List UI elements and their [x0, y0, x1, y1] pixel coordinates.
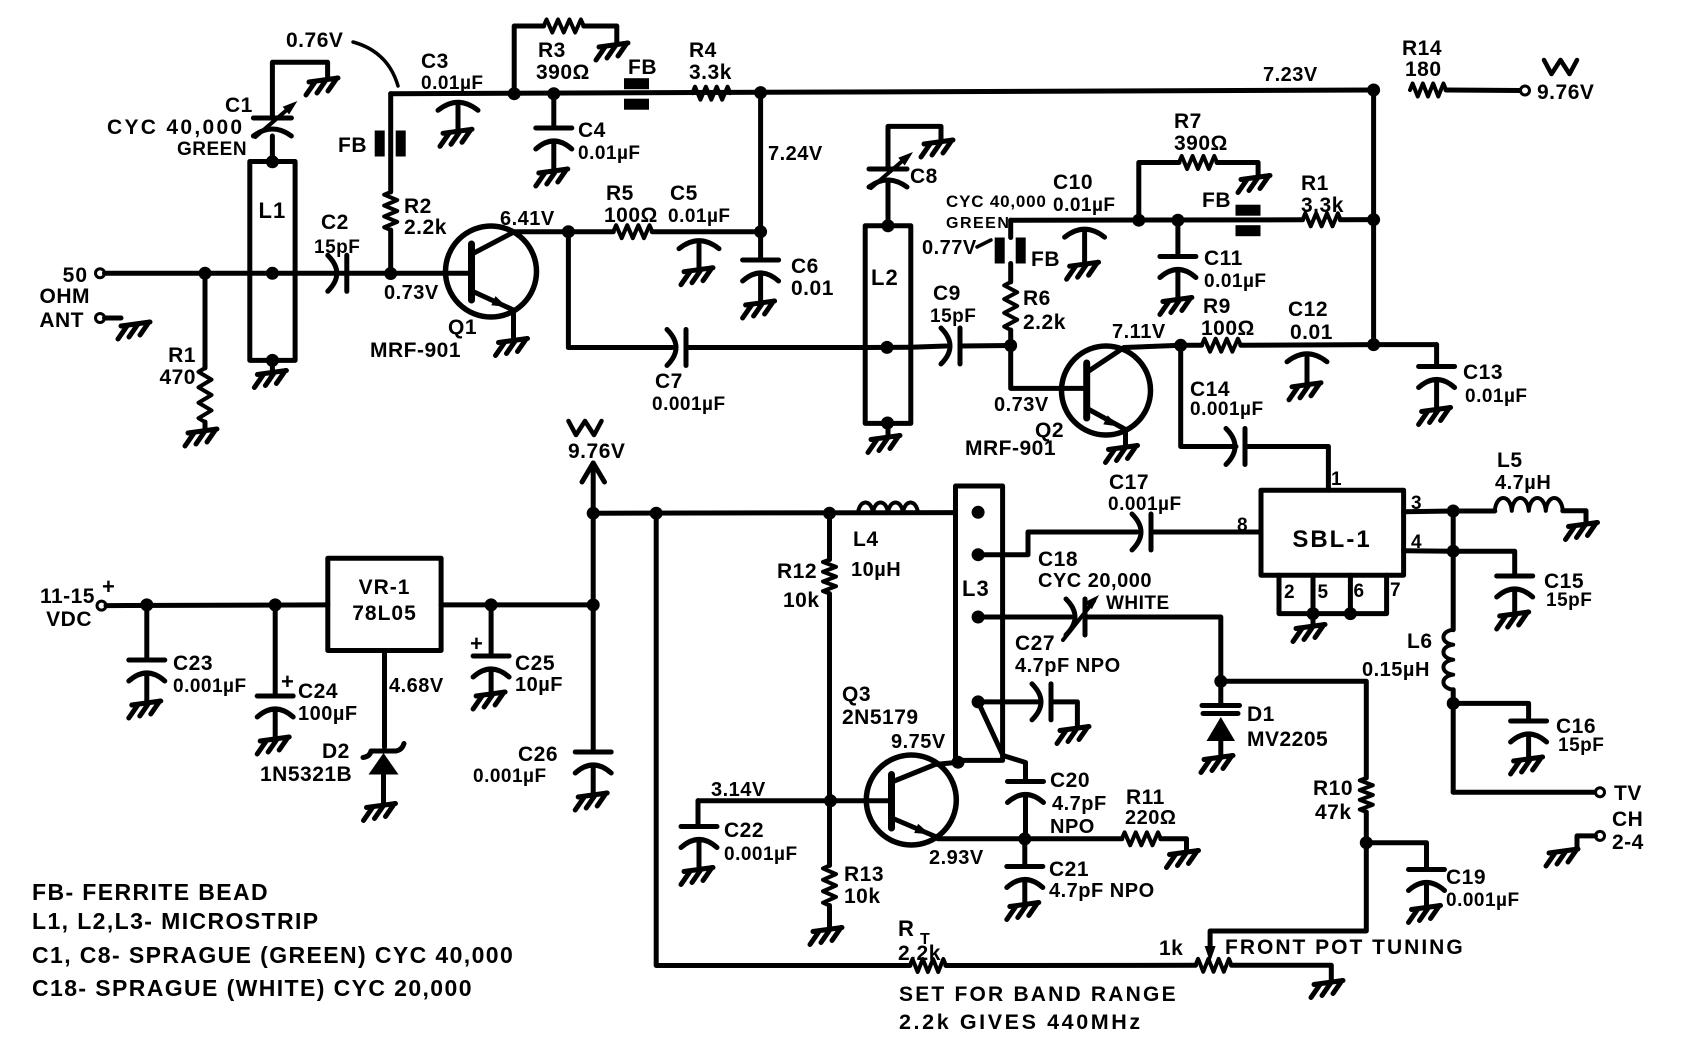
inductor L5: [1453, 449, 1586, 523]
svg-text:3.3k: 3.3k: [1301, 194, 1344, 217]
junction supply top: [587, 507, 600, 520]
svg-text:C3: C3: [421, 50, 449, 73]
resistor R5: [604, 182, 658, 238]
ground R11: [1167, 851, 1199, 868]
svg-text:8: 8: [1237, 515, 1248, 536]
junction top rail R14: [1367, 84, 1380, 97]
capacitor C16: [1453, 703, 1604, 774]
inductor L6: [1362, 630, 1453, 690]
junction pin4 node: [1447, 545, 1460, 558]
svg-text:C21: C21: [1049, 858, 1089, 881]
ferrite bead FB near R6: [995, 238, 1060, 272]
svg-text:0.15µH: 0.15µH: [1362, 659, 1430, 681]
svg-text:10k: 10k: [844, 885, 881, 908]
capacitor C17: [1108, 471, 1182, 550]
resistor RT: [898, 916, 946, 972]
ground R13: [810, 928, 842, 945]
wire R2 upper lead: [388, 94, 393, 192]
svg-text:0.73V: 0.73V: [384, 282, 439, 304]
svg-text:1k: 1k: [1159, 937, 1183, 960]
wire C8 lower lead: [886, 183, 891, 226]
transistor Q3: [842, 683, 958, 845]
svg-text:0.01µF: 0.01µF: [578, 143, 641, 164]
svg-text:R11: R11: [1126, 786, 1165, 809]
svg-text:R5: R5: [606, 182, 634, 205]
svg-text:0.01: 0.01: [791, 277, 834, 300]
svg-text:11-15: 11-15: [40, 585, 95, 608]
wire R10 lower lead: [1364, 812, 1369, 843]
svg-text:15pF: 15pF: [314, 237, 360, 258]
wire C1 top lead to ground: [272, 62, 327, 118]
wire right rail vertical: [1371, 90, 1376, 345]
svg-text:CYC 20,000: CYC 20,000: [1038, 570, 1152, 592]
junction L3 tap 2: [972, 548, 985, 561]
svg-text:C1, C8- SPRAGUE (GREEN) CYC 40: C1, C8- SPRAGUE (GREEN) CYC 40,000: [32, 942, 514, 968]
svg-text:0.01: 0.01: [1290, 321, 1333, 344]
svg-text:R3: R3: [538, 39, 566, 62]
mixer U1 SBL-1: [1261, 490, 1404, 575]
svg-text:C8: C8: [910, 165, 938, 188]
svg-text:10k: 10k: [783, 589, 820, 612]
wire VDC input line: [106, 602, 328, 608]
junction RT branch: [650, 507, 663, 520]
wire C8 top lead: [888, 126, 941, 169]
svg-text:390Ω: 390Ω: [536, 61, 590, 84]
svg-text:FB: FB: [1031, 248, 1060, 271]
svg-text:100Ω: 100Ω: [1201, 317, 1255, 340]
svg-text:10µH: 10µH: [851, 559, 901, 581]
svg-text:15pF: 15pF: [1558, 735, 1604, 756]
svg-text:7: 7: [1390, 580, 1401, 601]
capacitor C9: [930, 282, 976, 364]
svg-text:15pF: 15pF: [1546, 590, 1592, 611]
svg-text:Q3: Q3: [842, 683, 871, 706]
svg-text:2.2k: 2.2k: [404, 216, 447, 239]
svg-text:0.73V: 0.73V: [994, 394, 1049, 416]
diode D1 MV2205 (varactor): [1202, 681, 1328, 756]
svg-text:FB- FERRITE BEAD: FB- FERRITE BEAD: [32, 879, 269, 905]
wire L2 to C9: [911, 346, 946, 347]
capacitor C15: [1453, 551, 1592, 629]
capacitor C1 (variable): [107, 94, 297, 160]
wire C27 to ground: [1051, 702, 1077, 727]
svg-text:2-4: 2-4: [1612, 831, 1644, 854]
svg-text:1N5321B: 1N5321B: [260, 763, 352, 786]
resistor R4: [689, 39, 732, 100]
resistor R11: [1122, 786, 1177, 845]
terminal ANT ground lug: [96, 314, 151, 340]
ground Q2 emitter: [1106, 446, 1138, 463]
wire Q3 emitter line: [929, 839, 1122, 869]
diode D2 1N5321B (zener): [260, 740, 404, 804]
junction C16 node: [1447, 697, 1460, 710]
svg-text:C24: C24: [298, 680, 338, 703]
note band range: [899, 983, 1178, 1034]
pot wiper arrow: [1205, 946, 1216, 962]
junction Q1 collector node: [562, 225, 575, 238]
junction pin3 node: [1447, 505, 1460, 518]
wire R6 top lead: [1008, 264, 1013, 346]
regulator VR-1 78L05: [328, 558, 441, 650]
ferrite bead FB on bias rail: [1202, 189, 1261, 236]
label 7.23V: [1263, 64, 1318, 86]
wire R13 lower lead: [827, 801, 832, 928]
ground TV return: [1546, 849, 1578, 866]
wire C14 to SBL-1 pin 1: [1245, 447, 1328, 491]
wire second-stage bias rail: [1011, 217, 1303, 222]
svg-text:2.2k: 2.2k: [1023, 311, 1066, 334]
wire FB to base rail: [1008, 220, 1013, 237]
capacitor C10 (umbrella): [1053, 171, 1116, 279]
svg-text:100Ω: 100Ω: [604, 204, 658, 227]
wire R11 to ground: [1161, 839, 1187, 851]
svg-text:L3: L3: [962, 576, 990, 601]
svg-text:R1: R1: [1301, 172, 1329, 195]
svg-text:C18- SPRAGUE (WHITE) CYC 20,00: C18- SPRAGUE (WHITE) CYC 20,000: [32, 975, 473, 1001]
wire through L2: [865, 345, 911, 350]
svg-text:+: +: [281, 669, 294, 694]
microstrip L3: [956, 486, 1003, 760]
wire pin 4: [1404, 532, 1454, 553]
resistor R13: [823, 863, 884, 908]
svg-text:R9: R9: [1203, 295, 1231, 318]
svg-text:Q1: Q1: [448, 316, 477, 339]
capacitor C6: [743, 232, 834, 318]
power symbol W 9.76V (left) with arrow: [568, 421, 625, 513]
ground pot: [1311, 981, 1343, 998]
capacitor C2: [314, 211, 360, 291]
svg-text:C27: C27: [1015, 632, 1055, 655]
wire RT line: [656, 513, 910, 965]
wire Q3 base line: [698, 779, 892, 801]
microstrip L2: [865, 226, 911, 424]
wire pin3-pin4 vertical: [1451, 511, 1456, 630]
svg-text:D1: D1: [1247, 703, 1275, 726]
ground SBL-1 pins: [1293, 625, 1325, 642]
capacitor C5 (umbrella): [668, 182, 731, 285]
svg-text:0.001µF: 0.001µF: [652, 394, 726, 415]
wire 7.24V vertical: [758, 93, 763, 232]
svg-text:L1, L2,L3- MICROSTRIP: L1, L2,L3- MICROSTRIP: [32, 908, 320, 934]
capacitor C22: [681, 801, 798, 885]
svg-text:390Ω: 390Ω: [1174, 132, 1228, 155]
svg-text:1: 1: [1331, 469, 1342, 490]
svg-text:C25: C25: [515, 652, 555, 675]
svg-text:R13: R13: [844, 863, 884, 886]
svg-text:0.001µF: 0.001µF: [1190, 399, 1264, 420]
ferrite bead FB on rail: [624, 56, 657, 110]
wire Q2 collector drop to C14: [1181, 345, 1236, 446]
svg-text:78L05: 78L05: [352, 602, 417, 625]
svg-text:9.75V: 9.75V: [891, 731, 946, 753]
wire C7 to L2: [686, 345, 865, 350]
svg-text:C7: C7: [655, 370, 683, 393]
power symbol W 9.76V (right): [1537, 60, 1594, 104]
ground R1: [185, 429, 217, 446]
resistor R3 with loop to ground: [514, 20, 628, 94]
junction L3 tap 3: [972, 611, 985, 624]
resistor R10: [1313, 777, 1373, 824]
junction C6 node: [754, 225, 767, 238]
junction R12 R13 base node: [824, 794, 837, 807]
svg-text:C10: C10: [1053, 171, 1093, 194]
svg-text:VDC: VDC: [46, 608, 92, 631]
svg-text:0.77V: 0.77V: [922, 237, 977, 259]
terminal TV return: [1577, 831, 1605, 848]
svg-text:0.001µF: 0.001µF: [724, 844, 798, 865]
svg-text:4.68V: 4.68V: [389, 675, 444, 697]
resistor R2: [384, 192, 447, 239]
wire C7 line: [568, 345, 672, 350]
svg-text:GREEN: GREEN: [946, 215, 1010, 232]
resistor R1: [159, 344, 211, 422]
wire L1 bottom lead: [266, 354, 279, 371]
wire RT to pot: [946, 963, 1196, 968]
svg-text:R2: R2: [404, 195, 432, 218]
svg-text:SET FOR BAND RANGE: SET FOR BAND RANGE: [899, 983, 1178, 1006]
svg-text:C17: C17: [1109, 471, 1149, 494]
wire to TV terminal: [1453, 790, 1595, 795]
resistor R7 with loop to ground: [1139, 110, 1270, 220]
svg-text:FRONT POT TUNING: FRONT POT TUNING: [1225, 936, 1465, 959]
capacitor C11: [1160, 220, 1267, 314]
svg-text:+: +: [470, 631, 483, 656]
svg-text:10µF: 10µF: [515, 674, 563, 696]
capacitor C7: [652, 330, 726, 416]
inductor L4: [851, 503, 918, 582]
label 0.76V with pointer: [286, 29, 398, 86]
node 50-ohm antenna input terminal: [39, 264, 104, 332]
svg-text:2.2k GIVES 440MHz: 2.2k GIVES 440MHz: [899, 1010, 1143, 1034]
wire R10 to pot wiper: [1210, 843, 1366, 950]
svg-text:C23: C23: [173, 652, 213, 675]
svg-text:7.24V: 7.24V: [768, 143, 823, 165]
svg-text:R7: R7: [1174, 110, 1202, 133]
wire R1 to rail: [1340, 217, 1373, 222]
wire D2 lead: [385, 651, 444, 748]
svg-text:C12: C12: [1288, 298, 1328, 321]
legend line 1: [32, 879, 269, 905]
svg-text:2: 2: [1284, 582, 1295, 603]
pin 1 label: [1331, 469, 1342, 490]
svg-text:C18: C18: [1038, 548, 1078, 571]
svg-text:C20: C20: [1050, 769, 1090, 792]
junction C24 node: [269, 598, 282, 611]
svg-text:CH: CH: [1612, 808, 1643, 831]
svg-text:R10: R10: [1313, 777, 1353, 800]
svg-text:47k: 47k: [1315, 801, 1352, 824]
svg-text:C22: C22: [724, 819, 764, 842]
svg-text:100µF: 100µF: [298, 703, 358, 725]
resistor R12: [777, 560, 836, 612]
legend line 2: [32, 908, 320, 934]
wire R2 lower lead: [388, 230, 393, 273]
svg-text:50: 50: [63, 264, 88, 287]
ground D1: [1201, 756, 1233, 773]
ground D2: [364, 804, 396, 821]
wire pin 3: [1404, 493, 1454, 514]
svg-text:L4: L4: [853, 528, 879, 551]
capacitor C26: [473, 743, 611, 810]
svg-text:0.01µF: 0.01µF: [1053, 195, 1116, 216]
wire C12 line to C13: [1374, 342, 1437, 347]
junction R7 node: [1132, 214, 1145, 227]
svg-text:SBL-1: SBL-1: [1292, 526, 1371, 553]
junction D1 node: [1214, 675, 1227, 688]
pins 2 5 6 7 with ground bar: [1279, 575, 1401, 625]
svg-text:4: 4: [1411, 532, 1422, 553]
svg-text:FB: FB: [1202, 189, 1231, 212]
wire 5V/9.76V supply vertical: [591, 513, 596, 752]
svg-text:5: 5: [1318, 582, 1329, 603]
capacitor C25: [470, 605, 563, 709]
wire supply horizontal to L3: [593, 510, 955, 516]
svg-text:9.76V: 9.76V: [568, 440, 625, 463]
svg-text:WHITE: WHITE: [1106, 593, 1170, 614]
junction L4 R12 branch: [823, 507, 836, 520]
svg-text:L5: L5: [1497, 449, 1523, 472]
svg-text:GREEN: GREEN: [177, 139, 247, 160]
wire collector line right: [652, 229, 760, 234]
svg-text:220Ω: 220Ω: [1125, 807, 1176, 829]
wire L6 lower lead: [1451, 690, 1456, 793]
capacitor C24: [257, 605, 357, 754]
svg-text:470: 470: [159, 366, 196, 389]
svg-text:9.76V: 9.76V: [1537, 81, 1594, 104]
junction rail 7.24V node: [754, 86, 823, 165]
junction rail C12 line node: [1367, 338, 1380, 351]
svg-text:7.11V: 7.11V: [1112, 321, 1166, 343]
svg-text:0.001µF: 0.001µF: [473, 766, 547, 787]
label 9.75V: [891, 731, 946, 753]
wire R1 lead: [203, 273, 208, 368]
svg-text:4.7µH: 4.7µH: [1495, 472, 1551, 494]
svg-text:CYC 40,000: CYC 40,000: [946, 192, 1047, 211]
junction rail C4: [547, 87, 560, 100]
capacitor C14: [1190, 378, 1264, 465]
svg-text:C2: C2: [321, 211, 349, 234]
junction VR-1 output node: [587, 598, 600, 611]
svg-text:FB: FB: [628, 56, 657, 79]
junction L1 top: [266, 155, 279, 168]
junction L3 bottom Q3 collector: [952, 756, 965, 769]
svg-text:0.01µF: 0.01µF: [668, 206, 731, 227]
svg-text:C14: C14: [1190, 378, 1230, 401]
svg-text:C9: C9: [933, 282, 961, 305]
svg-text:4.7pF: 4.7pF: [1052, 793, 1107, 815]
junction rail R1 node: [1367, 213, 1380, 226]
potentiometer 1k front pot: [1159, 936, 1465, 972]
svg-text:0.001µF: 0.001µF: [173, 676, 247, 697]
wire D1 to R10: [1221, 681, 1367, 778]
wire L3 to C17 jog: [978, 532, 1137, 555]
svg-text:0.76V: 0.76V: [286, 29, 343, 52]
svg-text:D2: D2: [322, 740, 350, 763]
terminal TV output: [1596, 782, 1644, 854]
svg-text:C6: C6: [791, 255, 819, 278]
resistor R9: [1201, 295, 1255, 352]
transistor Q2: [965, 345, 1181, 460]
svg-text:+: +: [102, 574, 115, 599]
label 6.41V: [500, 208, 555, 230]
wire L3 to C18: [978, 615, 1071, 620]
junction Q1 base node: [384, 267, 439, 304]
svg-text:L2: L2: [871, 265, 899, 290]
svg-text:3.14V: 3.14V: [711, 779, 766, 801]
svg-text:C5: C5: [670, 182, 698, 205]
wire C17 to SBL-1 pin 8: [1151, 515, 1261, 536]
wire Q1 collector line: [510, 229, 613, 234]
junction L3 tap 1: [972, 506, 985, 519]
svg-text:ANT: ANT: [39, 309, 84, 332]
wire L3 tap to C20 (diagonal): [978, 702, 1025, 782]
svg-text:R12: R12: [777, 560, 817, 583]
junction C23 node: [140, 598, 153, 611]
ground L5: [1566, 523, 1598, 540]
capacitor C27: [1015, 632, 1121, 720]
svg-text:R: R: [898, 916, 914, 941]
capacitor C21: [1007, 839, 1155, 920]
svg-text:L6: L6: [1407, 630, 1433, 653]
wire Q2 base lead: [994, 346, 1087, 417]
wire C9 to base node: [960, 343, 1011, 349]
junction R10 C19 node: [1360, 836, 1373, 849]
ground C1: [306, 78, 338, 95]
wire R9 to rail corner: [1241, 342, 1374, 348]
ground L2: [868, 436, 900, 453]
svg-text:4.7pF NPO: 4.7pF NPO: [1015, 655, 1121, 677]
capacitor C18 (variable): [1038, 548, 1170, 640]
wire VR-1 output: [441, 602, 593, 607]
junction L2 top: [882, 219, 895, 232]
wire R12 lower lead: [827, 513, 832, 801]
label 7.11V: [1112, 321, 1166, 343]
svg-text:TV: TV: [1614, 782, 1642, 805]
label 0.77V with tick: [922, 237, 991, 259]
svg-text:VR-1: VR-1: [359, 576, 411, 599]
svg-text:C11: C11: [1204, 247, 1243, 270]
legend line 4: [32, 975, 473, 1001]
svg-text:0.01µF: 0.01µF: [421, 73, 484, 94]
wire R14 to 9.76V terminal: [1446, 88, 1521, 94]
capacitor C19: [1366, 843, 1519, 923]
svg-text:C13: C13: [1463, 361, 1503, 384]
capacitor C3 (umbrella to ground): [421, 50, 484, 146]
wire L2 bottom lead: [881, 417, 894, 437]
wire C18 to D1 node: [1085, 617, 1221, 681]
capacitor C13: [1419, 345, 1528, 425]
svg-text:4.7pF NPO: 4.7pF NPO: [1049, 880, 1155, 902]
svg-text:6: 6: [1354, 581, 1365, 602]
svg-text:3: 3: [1411, 493, 1422, 514]
wire collector to R9: [1181, 343, 1202, 348]
junction L3 tap 4: [972, 695, 985, 708]
wire L3 to C27: [978, 699, 1041, 704]
wire R1 bottom lead: [203, 422, 208, 430]
terminal 11-15 VDC input: [40, 574, 115, 631]
svg-text:2N5179: 2N5179: [842, 706, 919, 729]
junction C11 node: [1171, 214, 1184, 227]
capacitor C12 (umbrella): [1287, 298, 1333, 400]
ground L1: [254, 371, 286, 388]
junction L2 tap: [881, 341, 894, 354]
capacitor C8 (variable): [869, 152, 1047, 232]
ground C8: [921, 140, 953, 157]
junction Q2 base node: [1004, 339, 1017, 352]
junction emitter C20 C21 node: [1018, 832, 1031, 845]
legend line 3: [32, 942, 514, 968]
wire Q1 emitter lead: [511, 310, 516, 339]
